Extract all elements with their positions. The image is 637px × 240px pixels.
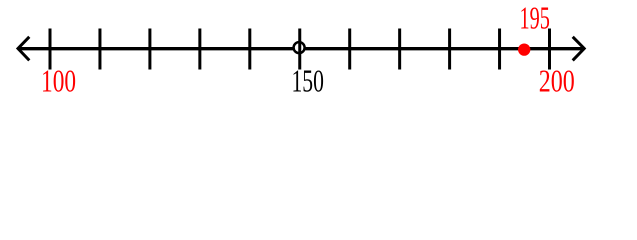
right arrowhead — [573, 37, 585, 61]
tick 160 — [348, 29, 351, 70]
tick 140 — [248, 29, 251, 70]
tick 200 — [548, 29, 551, 70]
open circle at 150 — [294, 42, 305, 53]
tick 120 — [148, 29, 151, 70]
tick 190 — [498, 29, 501, 70]
number line diagram — [0, 0, 637, 100]
red plotted point at 195 — [518, 43, 530, 55]
tick 130 — [198, 29, 201, 70]
svg-text:195: 195 — [520, 0, 550, 36]
tick 170 — [398, 29, 401, 70]
tick 150 — [298, 29, 301, 70]
svg-text:100: 100 — [41, 64, 76, 99]
tick 100 — [49, 29, 52, 70]
svg-text:200: 200 — [539, 65, 575, 100]
axis line — [18, 47, 584, 50]
tick 110 — [98, 29, 101, 70]
left arrowhead — [18, 37, 29, 61]
svg-text:150: 150 — [292, 64, 324, 99]
tick 180 — [448, 29, 451, 70]
